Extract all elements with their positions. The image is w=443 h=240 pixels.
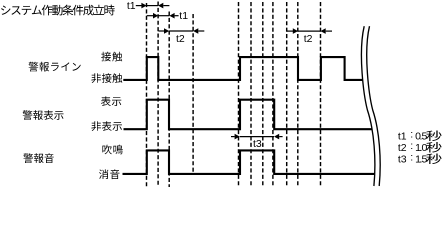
svg-text::: : <box>410 129 413 141</box>
svg-text:t2: t2 <box>398 142 407 154</box>
legend t3 : 1.5 秒 <box>398 152 442 166</box>
svg-text:t2: t2 <box>304 33 313 45</box>
svg-text:t1: t1 <box>127 0 136 12</box>
row2 low label 非表示 <box>91 121 122 131</box>
waveform row3 警報音 <box>123 150 376 174</box>
dashed line E2 <box>250 2 252 187</box>
break mark left curve <box>361 26 374 186</box>
dimension t2 left <box>158 28 204 45</box>
dimension t1 first <box>127 0 169 12</box>
legend t2 : 1.0 秒 <box>398 140 442 154</box>
row1 group label 警報ライン <box>29 62 81 72</box>
row2 high label 表示 <box>101 96 121 106</box>
dashed line D4 (t2 left end) <box>192 14 194 174</box>
dashed line D2 (pulse1 fall) <box>157 2 159 188</box>
svg-text:t1: t1 <box>398 130 407 142</box>
row3 low label 消音 <box>99 169 120 179</box>
row3 group label 警報音 <box>23 153 54 163</box>
row1 high label 接触 <box>101 52 122 62</box>
dimension t3 <box>231 134 283 150</box>
dashed line E5 <box>286 2 288 187</box>
title text システム作動条件成立時 <box>1 5 115 16</box>
break mark right curve <box>367 26 380 186</box>
dashed line E1 (pulse2 rise) <box>238 2 240 187</box>
svg-text:0: 0 <box>422 142 428 154</box>
dimension t2 right <box>287 28 332 45</box>
row2 group label 警報表示 <box>23 110 64 120</box>
svg-text:t3: t3 <box>398 153 407 165</box>
svg-text:5: 5 <box>422 153 428 165</box>
row3 high label 吹鳴 <box>102 145 122 155</box>
legend t1 : 0.5 秒 <box>398 129 442 143</box>
waveform row2 警報表示 <box>124 100 373 130</box>
dashed line E6 (pulse2 fall) <box>297 2 299 187</box>
dashed line E3 <box>262 2 264 187</box>
dashed line D3 (display fall) <box>168 12 170 188</box>
svg-text:t1: t1 <box>179 10 188 22</box>
row1 low label 非接触 <box>91 73 122 83</box>
dashed line E4 (t3 end) <box>272 2 274 187</box>
svg-text:5: 5 <box>422 130 428 142</box>
svg-text::: : <box>410 140 413 152</box>
waveform row1 警報ライン <box>123 57 362 80</box>
svg-text:t3: t3 <box>253 138 262 150</box>
svg-text:t2: t2 <box>176 33 185 45</box>
svg-text::: : <box>410 152 413 164</box>
dashed line E7 (pulse3 rise) <box>320 2 322 187</box>
dimension t1 second <box>147 10 188 22</box>
dashed line D1 (pulse1 rise) <box>146 3 148 187</box>
